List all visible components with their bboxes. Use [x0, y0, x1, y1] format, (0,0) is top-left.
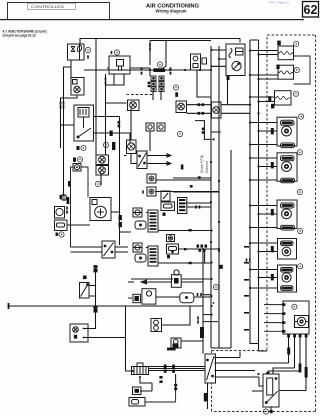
- temp sensor box y325: [151, 319, 162, 332]
- relay box bottom-left 2: [129, 398, 145, 407]
- relay box B2: [171, 270, 181, 287]
- motor M7: [278, 239, 297, 260]
- pin label 11 on bus C: [246, 258, 248, 261]
- wire diag connector right arrows: [147, 156, 166, 164]
- sq glyph on bus B: [219, 265, 223, 269]
- arrow left row A: [141, 280, 150, 284]
- blob left of M8: [271, 274, 274, 280]
- wire row y325: [161, 306, 190, 325]
- node A circle: [157, 62, 162, 67]
- blob below X3: [204, 393, 208, 402]
- wire rows below top box: [187, 70, 251, 139]
- svg-text:Essence: Essence: [205, 161, 209, 173]
- wire left lamp drop: [84, 265, 96, 329]
- wire switch out right: [93, 133, 130, 143]
- relay boxes mid k3: [147, 174, 156, 196]
- striped sensor block: [178, 198, 187, 214]
- motor M8: [278, 265, 297, 292]
- wire right motor stubs m6: [250, 206, 277, 228]
- wire right motor stubs m8: [250, 270, 278, 289]
- relay S10 bottom: [263, 374, 279, 407]
- relay R1: [278, 46, 294, 60]
- wire connector X right out: [215, 352, 289, 387]
- wire label blob right of switch: [110, 131, 113, 137]
- wire right motor stubs m4: [250, 123, 277, 145]
- wire right motor stubs m5: [250, 158, 277, 180]
- clutch node circle: [61, 195, 66, 200]
- svg-text:A.T. INJECTION ENGINE (1st par: A.T. INJECTION ENGINE (1st part): [3, 28, 47, 33]
- wire left bus stubs: [155, 180, 219, 263]
- ignition switch S1: [74, 105, 94, 141]
- control unit F9: [283, 301, 309, 334]
- node ground circle left: [61, 194, 66, 199]
- wire V0 label tick: [68, 181, 71, 187]
- svg-text:2nd part see page 62.23: 2nd part see page 62.23: [3, 34, 36, 38]
- fuse box F1: [68, 44, 85, 60]
- relay pair V1: [96, 155, 109, 175]
- bus D vertical: [258, 40, 260, 351]
- svg-text:CONTROLLED: CONTROLLED: [31, 5, 65, 9]
- solenoid K5: [176, 101, 187, 113]
- node B circle: [173, 85, 178, 90]
- wire label blobs bottom right: [305, 367, 308, 378]
- wire R1 loop: [294, 56, 311, 84]
- relay K2 box: [71, 78, 84, 96]
- wire grid drop: [153, 91, 161, 100]
- wire connector k rows: [71, 247, 129, 252]
- wire horn row: [128, 281, 203, 283]
- relay R2: [278, 65, 294, 79]
- wire row y279: [131, 278, 211, 280]
- blob on x202: [200, 327, 204, 338]
- wire row y341: [181, 340, 204, 342]
- blob left of M6: [271, 209, 274, 215]
- blob left of M5: [271, 162, 274, 168]
- wire right relay stubs r3: [250, 97, 275, 102]
- header frame box top-left: [8, 3, 110, 20]
- motor M4: [277, 117, 297, 147]
- top control box U1: [226, 44, 245, 76]
- circled sym left: [103, 142, 108, 147]
- sensor y341: [171, 338, 181, 348]
- wire right relay stubs r1: [250, 51, 278, 55]
- F9 left pins: [282, 303, 285, 332]
- bus C vertical: [250, 40, 259, 344]
- wire valve feed: [101, 142, 106, 185]
- central box right edge: [230, 150, 232, 348]
- connector X3 (bottom center): [205, 354, 216, 383]
- wire fuse drop: [64, 60, 72, 150]
- compressor clutch pump: [55, 207, 68, 231]
- dashed wire to K4: [127, 94, 155, 96]
- circled num right: [177, 131, 182, 136]
- oval component y296: [180, 293, 194, 303]
- label K row2: [73, 158, 76, 162]
- left pin ticks of central box: [244, 246, 249, 331]
- wire blower row: [67, 212, 120, 225]
- black label blob: [112, 142, 115, 150]
- wire bundle blobs: [119, 215, 122, 220]
- wire top feed left: [80, 39, 240, 156]
- resistor pack 2: [133, 243, 158, 266]
- wire F9 drops: [289, 337, 307, 391]
- relay lamp label glyph: [83, 276, 87, 280]
- wire resistor rows: [133, 213, 148, 248]
- wire label ticks rows y180 y186 and left end y306: [8, 176, 201, 309]
- label K row1: [77, 146, 80, 150]
- node B bottom circle: [263, 409, 268, 414]
- bus A vertical: [210, 46, 212, 348]
- unit N label: [111, 51, 113, 54]
- svg-text:Wiring diagram: Wiring diagram: [156, 9, 187, 15]
- thermo fuse box bottom: [133, 387, 142, 395]
- wire right relay stubs r2: [250, 75, 278, 79]
- wire to relay pair: [131, 109, 150, 152]
- wire label ticks x95: [94, 266, 97, 312]
- narrow box on bus: [212, 102, 222, 118]
- connector X2 (mid left): [102, 241, 115, 258]
- svg-text:PRC / Page 62: PRC / Page 62: [269, 0, 289, 4]
- header label CONTROLLED: [28, 3, 76, 9]
- blower motor M: [90, 198, 111, 221]
- dashed panel top: [212, 35, 316, 412]
- wire switch right: [93, 116, 120, 118]
- relay lamp box bottom-left: [80, 283, 96, 299]
- valve VX: [127, 140, 137, 154]
- resistor pack 1: [133, 208, 158, 232]
- wire drop to junction blob: [150, 41, 166, 71]
- motor M5: [277, 153, 297, 183]
- gauge two-circle box: [70, 324, 88, 342]
- wire box N verticals: [106, 74, 127, 142]
- wire right motor stubs m7: [250, 243, 278, 252]
- header rule: [0, 19, 304, 20]
- wire bottom bundle: [126, 367, 205, 372]
- wire label ticks bundle x119: [118, 121, 121, 127]
- node B2 circle: [213, 284, 218, 289]
- valve box V0: [73, 164, 81, 172]
- wire S10 bottom: [270, 407, 272, 410]
- sensor box row y296: [142, 289, 156, 304]
- wire blower drop: [120, 117, 132, 246]
- wire top feed to bus: [150, 40, 211, 42]
- wire label tick below arrow: [181, 165, 184, 170]
- motor M6: [277, 200, 297, 230]
- blob left of M7: [271, 246, 274, 252]
- node circle below V1: [95, 181, 100, 186]
- connector grid G1: [151, 76, 164, 92]
- wire junction row: [84, 69, 211, 71]
- wire rows y296: [128, 297, 212, 298]
- wire mid rows to bus: [173, 178, 219, 203]
- wire to S10: [252, 368, 306, 391]
- wire gauge out: [84, 337, 126, 339]
- resistor comb bottom: [132, 363, 149, 375]
- tiny sq on wire: [202, 58, 207, 64]
- wire ignition feeds: [61, 95, 78, 196]
- wire long y306: [8, 248, 218, 354]
- F9 bottom pins: [287, 334, 307, 337]
- tick cluster before bus: [184, 229, 207, 264]
- aux switch small box: [167, 235, 175, 242]
- wire top bus links: [212, 50, 228, 105]
- pressure switch pill box: [161, 202, 175, 211]
- relay R3: [275, 91, 292, 105]
- svg-text:Diesel F(TB): Diesel F(TB): [200, 155, 204, 173]
- wire N right pin: [130, 68, 150, 76]
- junction blob A: [153, 68, 166, 72]
- wire diag connector left: [124, 154, 137, 164]
- switch box 7: [161, 191, 170, 201]
- blob left of R3: [268, 96, 271, 101]
- solenoid K4: [128, 100, 140, 111]
- small box on bus: [191, 54, 201, 70]
- diagonal connector D1: [137, 151, 147, 169]
- ignition ticks: [60, 101, 62, 104]
- blob left of M4: [271, 128, 274, 134]
- wire label ticks x150: [149, 43, 151, 46]
- fuse num 3: [85, 47, 90, 52]
- wire bottom drops: [126, 306, 176, 392]
- arrows right of D1: [166, 154, 171, 166]
- wire V0 sides: [71, 167, 89, 247]
- wire X down: [207, 383, 209, 409]
- aux pill box: [167, 244, 179, 254]
- wire from bottom box 2: [145, 392, 176, 402]
- small boxes above relay: [146, 123, 165, 131]
- page number box 62: [303, 2, 319, 18]
- tick column x105: [105, 77, 107, 80]
- wire central box bottom: [211, 344, 267, 352]
- unit N box: [107, 56, 132, 74]
- bus B vertical: [218, 46, 220, 348]
- svg-text:62: 62: [304, 3, 318, 17]
- wire label ticks rows y104 y113 y129: [198, 103, 205, 134]
